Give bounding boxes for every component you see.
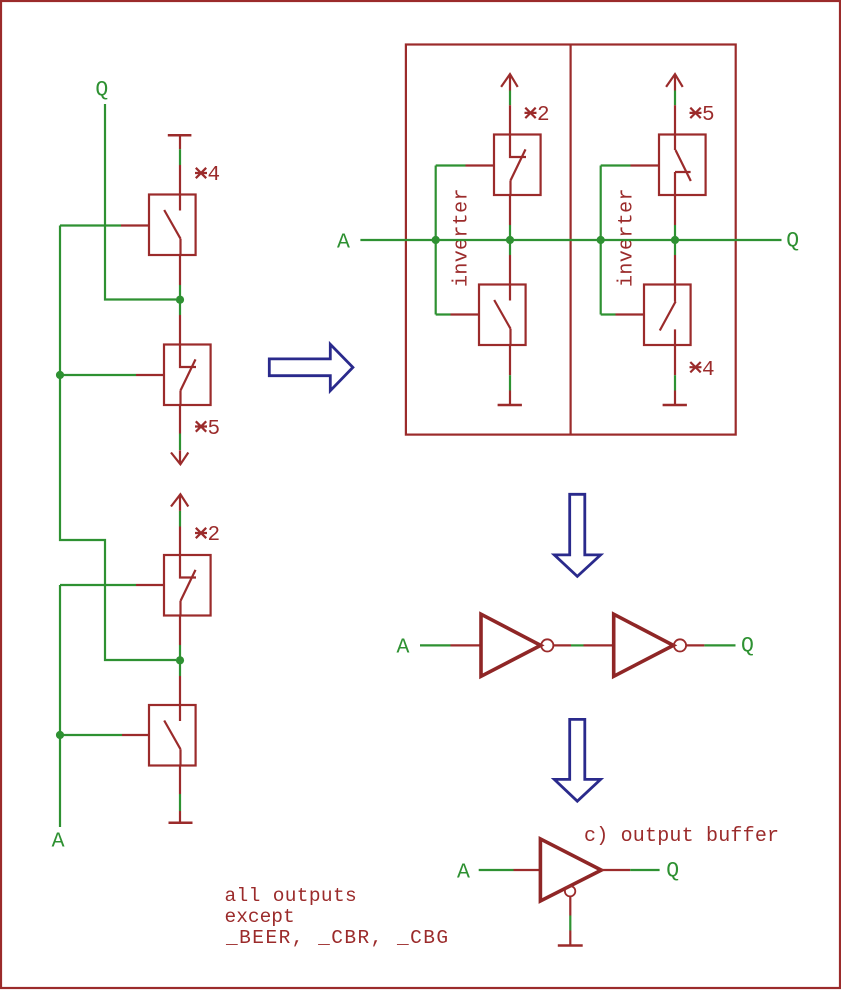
inverter U1 bubble <box>541 639 553 651</box>
label *5 <box>195 421 207 431</box>
wire output Q <box>630 869 659 871</box>
pin T7 gate <box>631 164 660 166</box>
svg-text:Q: Q <box>666 859 679 883</box>
wire gate T3 <box>60 584 136 586</box>
pin buffer out <box>601 869 630 871</box>
svg-text:5: 5 <box>702 104 715 127</box>
cell 1: supply arrow up <box>501 74 518 90</box>
arrow down 2 (blue) <box>554 719 600 801</box>
junction node 2 <box>176 656 184 664</box>
svg-text:A: A <box>337 231 350 255</box>
pin T5 top <box>509 105 511 134</box>
wire between inverters <box>571 644 584 646</box>
junction Q node <box>176 296 184 304</box>
supply arrow down <box>171 450 188 464</box>
pin T3 gate <box>136 584 164 586</box>
svg-text:2: 2 <box>208 524 221 547</box>
pin T4 gate <box>122 734 150 736</box>
wire enable to ground <box>569 916 571 931</box>
pin T6 gate <box>451 313 480 315</box>
svg-text:c) output buffer: c) output buffer <box>584 825 779 848</box>
pin T6 bottom <box>509 345 511 375</box>
pin T5 gate <box>466 164 495 166</box>
pin T7 top <box>674 105 676 134</box>
svg-text:A: A <box>457 861 470 885</box>
arrow down 1 (blue) <box>554 494 600 576</box>
svg-text:inverter: inverter <box>451 188 474 287</box>
svg-text:except: except <box>225 906 295 928</box>
svg-text:_BEER, _CBR, _CBG: _BEER, _CBR, _CBG <box>225 927 450 949</box>
junction gate T4 <box>56 731 64 739</box>
svg-text:Q: Q <box>741 634 754 658</box>
transistor T4 (switch) <box>149 705 196 766</box>
svg-text:all outputs: all outputs <box>225 885 358 907</box>
pin T4 top <box>179 676 181 705</box>
wire T6 to ground <box>509 375 511 390</box>
pin inverter1 in <box>451 644 481 646</box>
ground c1 <box>509 391 511 406</box>
pin inverter2 out <box>686 644 704 646</box>
transistor T8 (switch *4) <box>644 285 691 346</box>
svg-text:4: 4 <box>208 164 221 187</box>
label *5 <box>690 108 702 118</box>
pin buffer enable <box>569 896 571 915</box>
wire supply c2 <box>674 91 676 106</box>
pin T5 drain bottom <box>509 195 511 225</box>
inverter U1 triangle <box>481 614 541 676</box>
buffer U3 triangle <box>540 839 601 901</box>
pin T2 bottom <box>179 405 181 434</box>
ground c2 <box>674 391 676 406</box>
pin inverter2 in <box>584 644 614 646</box>
svg-text:Q: Q <box>95 78 108 102</box>
pin T4 bottom <box>179 765 181 794</box>
junction gate node c1 <box>432 236 440 244</box>
pin T8 top <box>674 255 676 285</box>
pin T1 drain bottom <box>179 255 181 285</box>
svg-text:4: 4 <box>702 359 715 382</box>
pin T1 gate <box>121 224 149 226</box>
transistor T1 (switch *4) <box>149 195 196 256</box>
supply terminal T-bar top <box>168 134 192 137</box>
ground buffer <box>569 931 571 946</box>
pin T3 top <box>179 527 181 556</box>
wire T8 to ground <box>674 375 676 390</box>
frame outer <box>406 45 736 435</box>
transistor T3 (switch *2) <box>164 555 211 616</box>
label *2 <box>195 528 207 538</box>
pin T7 drain bottom <box>674 195 676 225</box>
wire T2 to supply arrow <box>179 434 181 451</box>
svg-text:A: A <box>397 635 410 659</box>
wire gate bus vertical <box>60 226 176 661</box>
inverter U2 bubble <box>674 639 686 651</box>
pin T8 bottom <box>674 345 676 375</box>
junction drain node c1 <box>506 236 514 244</box>
transistor T7 (switch *5) <box>659 135 706 196</box>
junction gate node c2 <box>597 236 605 244</box>
junction drain node c2 <box>671 236 679 244</box>
wire node c1 <box>509 225 511 255</box>
wire supply to T1 <box>179 149 181 165</box>
wire gate T2 <box>60 374 136 376</box>
frame divider <box>569 45 571 435</box>
wire gate T1 <box>60 224 121 226</box>
label *4 <box>690 362 702 372</box>
buffer U3 enable bubble <box>565 886 575 896</box>
wire A-Q horizontal <box>360 239 781 241</box>
wire T4 to ground <box>179 794 181 811</box>
wire node c2 <box>674 225 676 255</box>
pin T6 top <box>509 255 511 285</box>
wire gate c1 <box>436 166 466 315</box>
wire Q vertical <box>105 104 176 300</box>
arrow right (blue) <box>269 344 353 390</box>
transistor T2 (switch *5) <box>164 345 211 406</box>
wire node Q to junction <box>179 285 181 315</box>
svg-text:Q: Q <box>786 229 799 253</box>
wire input A <box>420 644 451 646</box>
label *4 <box>195 168 207 178</box>
inverter U2 triangle <box>614 614 674 676</box>
pin buffer in <box>514 869 540 871</box>
wire input A vertical <box>59 585 61 827</box>
wire supply to T3 <box>179 511 181 527</box>
pin T2 top <box>179 315 181 345</box>
wire gate T4 <box>60 734 122 736</box>
transistor T5 (switch *2) <box>494 135 541 196</box>
wire output Q <box>704 644 735 646</box>
wire gate c2 <box>601 166 631 315</box>
wire supply c1 <box>509 91 511 106</box>
pin T2 gate <box>136 374 164 376</box>
svg-text:2: 2 <box>537 104 550 127</box>
svg-text:inverter: inverter <box>616 188 639 287</box>
svg-text:5: 5 <box>208 418 221 441</box>
transistor T6 (switch) <box>479 285 526 346</box>
pin T1 drain top <box>179 165 181 195</box>
label *2 <box>525 108 537 118</box>
svg-text:A: A <box>52 829 65 853</box>
supply arrow up <box>171 494 188 511</box>
ground terminal bottom left <box>179 811 181 823</box>
pin T8 gate <box>616 313 645 315</box>
wire input A <box>479 869 514 871</box>
junction gate bus A' <box>56 371 64 379</box>
cell 2: supply arrow up <box>666 74 683 90</box>
pin inverter1 out <box>553 644 571 646</box>
wire mid node 2 <box>179 645 181 676</box>
pin T3 bottom <box>179 616 181 646</box>
